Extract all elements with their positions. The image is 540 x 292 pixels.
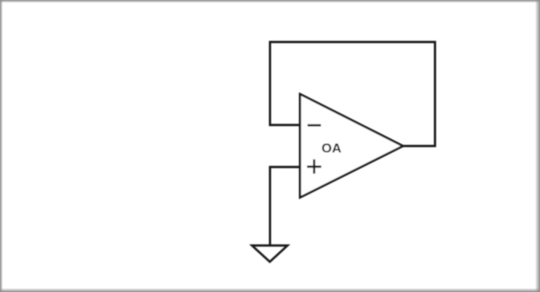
label − (inverting input) bbox=[308, 124, 322, 126]
label + (non-inverting input) bbox=[307, 159, 321, 173]
op-amp OA (triangle body) bbox=[300, 94, 403, 198]
wire: non-inverting input to ground bbox=[270, 167, 300, 245]
wire: feedback loop from op-amp output to inverting input bbox=[270, 42, 435, 146]
svg-text:OA: OA bbox=[322, 141, 342, 156]
decorative frame edges bbox=[0, 0, 540, 3]
ground bbox=[252, 246, 288, 262]
